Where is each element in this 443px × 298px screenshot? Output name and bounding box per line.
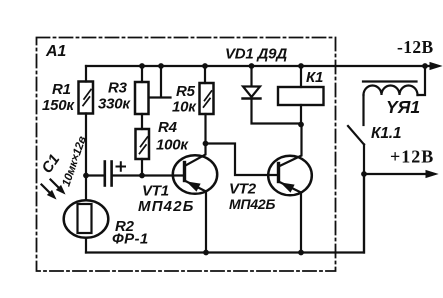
switch contact K1.1 xyxy=(348,126,364,145)
photoresistor R2 xyxy=(85,176,87,201)
wire: top -12V rail xyxy=(86,65,432,67)
diode VD1 xyxy=(250,66,252,87)
node: R5 top on rail xyxy=(202,63,208,69)
svg-text:150к: 150к xyxy=(42,97,75,114)
svg-text:10к: 10к xyxy=(172,99,197,116)
label + (C1 polarity) xyxy=(117,162,126,171)
wire: coil to switch xyxy=(362,95,364,125)
resistor R4 xyxy=(136,129,150,159)
wire: base line C1 to VT1 xyxy=(112,174,185,176)
wire: rail to YA1 coil xyxy=(418,66,426,95)
node: VT1 collector / R5 junction xyxy=(203,141,209,147)
wire: switch to +12V node xyxy=(363,145,365,253)
node: junction R1/C1/R2 xyxy=(83,173,89,179)
node: K1 top on rail xyxy=(298,63,304,69)
node: R3 top on rail xyxy=(139,63,145,69)
light arrows into R2 xyxy=(42,185,51,194)
node: R4/base junction xyxy=(139,173,145,179)
svg-text:R1: R1 xyxy=(52,81,71,98)
resistor R5 xyxy=(204,66,206,83)
svg-text:-12В: -12В xyxy=(397,37,434,57)
resistor R1 xyxy=(85,66,87,82)
svg-text:YЯ1: YЯ1 xyxy=(386,97,420,117)
node: VT2 emitter on bottom rail xyxy=(298,250,304,256)
svg-text:МП42Б: МП42Б xyxy=(138,198,195,215)
svg-text:R5: R5 xyxy=(176,83,196,100)
svg-text:VT1: VT1 xyxy=(142,183,169,200)
module boundary A1 (dash-dot frame) xyxy=(37,38,336,272)
svg-text:VT2: VT2 xyxy=(229,181,257,198)
wire: bottom +12V rail xyxy=(86,174,364,253)
svg-text:+12В: +12В xyxy=(390,147,434,167)
wire: -12V rail arrowhead xyxy=(430,63,441,70)
node: VD1 anode on rail xyxy=(249,63,255,69)
svg-text:R3: R3 xyxy=(108,80,128,97)
node: VD1/K1/VT2 collector junction xyxy=(298,122,304,128)
wire: +12V lead xyxy=(364,173,428,175)
node: VT1 emitter on bottom rail xyxy=(203,250,209,256)
capacitor C1 xyxy=(86,174,105,176)
relay coil K1 xyxy=(300,66,302,87)
transistor VT2 xyxy=(268,156,312,196)
svg-text:К1: К1 xyxy=(306,69,323,86)
electromagnet coil YA1 xyxy=(364,86,418,96)
svg-text:330к: 330к xyxy=(98,96,131,113)
node: -12V branch xyxy=(422,63,428,69)
node: +12V branch xyxy=(361,171,367,177)
svg-text:А1: А1 xyxy=(45,43,66,60)
transistor VT1 xyxy=(173,155,217,194)
svg-text:МП42Б: МП42Б xyxy=(229,196,276,212)
svg-text:ФР-1: ФР-1 xyxy=(112,231,149,248)
wire: trimmer tap of R3 xyxy=(149,66,171,98)
wire: +12V arrowhead xyxy=(426,171,437,178)
node: trimmer tap on rail xyxy=(158,63,164,69)
svg-text:R4: R4 xyxy=(158,119,178,136)
wire: VT1 collector to VT2 base xyxy=(206,144,279,176)
resistor R3 xyxy=(141,66,143,82)
svg-text:К1.1: К1.1 xyxy=(371,125,401,142)
svg-text:100к: 100к xyxy=(156,137,189,154)
svg-text:VD1 Д9Д: VD1 Д9Д xyxy=(225,46,287,63)
